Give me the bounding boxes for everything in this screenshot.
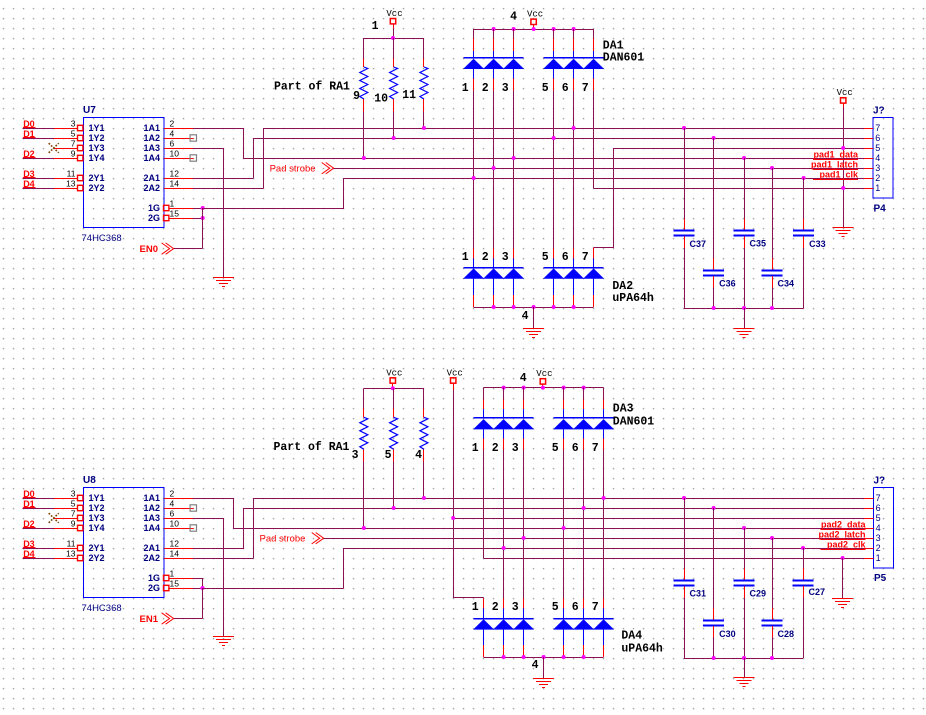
svg-text:5: 5 bbox=[542, 82, 549, 95]
svg-text:C34: C34 bbox=[778, 279, 795, 289]
wire U8 pin12 seg bbox=[193, 548, 244, 550]
Vcc symbol feed (bottom) bbox=[451, 378, 456, 383]
junction R4b to line bbox=[422, 496, 426, 500]
Vcc symbol above RA1 (bottom) bbox=[390, 378, 395, 383]
svg-text:Part of RA1: Part of RA1 bbox=[274, 81, 350, 94]
resistor RA1 pin 3 (bottom) bbox=[360, 417, 368, 449]
junction DA4 bus x523 bbox=[522, 655, 526, 659]
junction at U7 pin1 bbox=[201, 206, 205, 210]
junction column x573 bbox=[572, 126, 576, 130]
wire C37 upper bbox=[684, 128, 686, 219]
resistor RA1 pin 11 bbox=[420, 67, 428, 99]
P4 pin 3 bbox=[864, 163, 880, 173]
svg-text:5: 5 bbox=[542, 251, 549, 264]
wire P4 Vcc to ground rail bbox=[843, 108, 845, 228]
wire C30 lower bbox=[713, 626, 715, 637]
junction column x523 b bbox=[522, 536, 526, 540]
U8 pin 5 (1Y2) bbox=[54, 499, 105, 514]
U8 pin 3 (1Y1) bbox=[54, 489, 105, 504]
wire EN0 stub bbox=[173, 248, 202, 250]
junction DA4 bus x583 bbox=[582, 655, 586, 659]
Vcc symbol above P4 bbox=[841, 98, 846, 103]
wire C31 upper bbox=[684, 498, 686, 569]
svg-text:2G: 2G bbox=[148, 583, 160, 593]
svg-text:1Y4: 1Y4 bbox=[89, 523, 105, 533]
svg-text:1Y3: 1Y3 bbox=[89, 513, 105, 523]
svg-text:4: 4 bbox=[522, 310, 529, 323]
wire 2G net jog up bbox=[343, 548, 345, 588]
svg-text:12: 12 bbox=[170, 539, 180, 549]
svg-text:5: 5 bbox=[552, 601, 559, 614]
wire U7 pin6 down to ground bbox=[223, 148, 225, 278]
svg-text:6: 6 bbox=[875, 133, 880, 143]
svg-text:5: 5 bbox=[385, 449, 392, 462]
capacitor C27 bbox=[793, 580, 814, 582]
svg-text:1A4: 1A4 bbox=[143, 153, 160, 163]
svg-text:2: 2 bbox=[875, 173, 880, 183]
junction DA1 bus x533 bbox=[532, 27, 536, 31]
wire RA1 R9 upper bbox=[363, 38, 365, 58]
capacitor C37 bbox=[674, 230, 695, 232]
svg-text:2Y2: 2Y2 bbox=[89, 183, 105, 193]
svg-text:Vcc: Vcc bbox=[837, 88, 853, 98]
wire DA2 ground stem bbox=[533, 307, 535, 328]
svg-text:J?: J? bbox=[873, 106, 885, 117]
svg-text:74HC368: 74HC368 bbox=[82, 233, 122, 244]
svg-text:uPA64h: uPA64h bbox=[621, 642, 663, 655]
diode DA4 pin 3 bbox=[512, 598, 534, 657]
svg-text:7: 7 bbox=[71, 139, 76, 149]
svg-text:pad2_data: pad2_data bbox=[821, 519, 867, 529]
wire U7 pin12 jog up bbox=[253, 138, 255, 178]
wire C29 upper bbox=[744, 528, 746, 569]
svg-text:14: 14 bbox=[170, 549, 180, 559]
svg-text:C29: C29 bbox=[750, 588, 767, 598]
svg-text:1: 1 bbox=[876, 553, 881, 563]
P5 pin 3 bbox=[864, 533, 881, 543]
svg-text:10: 10 bbox=[374, 92, 388, 105]
wire C36 lower bbox=[713, 276, 715, 287]
wire column x523 DA3-DA4 bbox=[523, 449, 525, 598]
svg-text:2: 2 bbox=[482, 251, 489, 264]
wire U7 pin12 seg bbox=[193, 178, 253, 180]
wire Vcc stem RA1 top bbox=[393, 28, 395, 38]
diode DA1 pin 5 bbox=[542, 29, 564, 95]
svg-text:6: 6 bbox=[876, 503, 881, 513]
svg-text:9: 9 bbox=[71, 519, 76, 529]
svg-text:4: 4 bbox=[510, 11, 517, 24]
diode DA1 pin 1 bbox=[462, 29, 484, 95]
wire U7 pin1 to pin15 tie bbox=[202, 208, 204, 218]
P4 pin 2 bbox=[864, 173, 880, 183]
svg-text:4: 4 bbox=[415, 449, 422, 462]
ground at P5 bbox=[832, 598, 853, 600]
wire U8 pin6 seg bbox=[193, 518, 224, 520]
U7 pin 1 (1G) bbox=[148, 199, 193, 214]
svg-text:pad1_data: pad1_data bbox=[813, 149, 859, 159]
diode DA4 pin 1 bbox=[472, 598, 494, 657]
wire C28 upper bbox=[772, 538, 774, 608]
svg-text:1: 1 bbox=[462, 251, 469, 264]
ground at DA2 bbox=[523, 328, 544, 330]
wire column x493 DA1-DA2 bbox=[493, 91, 495, 249]
wire column x473 DA1-DA2 bbox=[473, 91, 475, 249]
junction DA3 bus x523 bbox=[522, 386, 526, 390]
DA4 cathode bar group A bbox=[474, 618, 534, 620]
wire C33 lower bbox=[803, 236, 805, 247]
wire D3 to U8 bbox=[22, 548, 54, 550]
svg-text:Vcc: Vcc bbox=[447, 368, 463, 378]
svg-text:2Y2: 2Y2 bbox=[89, 553, 105, 563]
svg-text:13: 13 bbox=[66, 549, 76, 559]
svg-text:2: 2 bbox=[876, 543, 881, 553]
diode DA3 pin 1 bbox=[472, 388, 494, 455]
wire cap bus bottom ground stem bbox=[744, 658, 746, 678]
U8 pin 12 (2A1) bbox=[143, 539, 193, 554]
U8 pin 15 (2G) bbox=[148, 579, 193, 594]
U7 pin 12 (2A1) bbox=[143, 169, 193, 184]
svg-text:10: 10 bbox=[170, 519, 180, 529]
U7 pin 10 (1A4) bbox=[143, 149, 193, 164]
P5 pin 1 bbox=[864, 553, 881, 563]
capacitor C36 bbox=[703, 270, 724, 272]
svg-text:11: 11 bbox=[402, 89, 416, 102]
svg-text:4: 4 bbox=[532, 659, 539, 672]
U7 pin 9 (1Y4) bbox=[54, 149, 105, 164]
svg-text:2: 2 bbox=[170, 119, 175, 129]
svg-text:U8: U8 bbox=[83, 475, 96, 486]
svg-text:Part of RA1: Part of RA1 bbox=[274, 441, 350, 454]
diode DA2 pin 7 bbox=[582, 248, 604, 307]
wire U8 pin6 down to ground bbox=[223, 518, 225, 637]
wire column x553 DA1-DA2 bbox=[553, 91, 555, 249]
P5 pin 4 bbox=[864, 523, 881, 533]
wire column x483 DA3 to line y558 bbox=[483, 449, 485, 558]
wire capacitor bus bottom bbox=[684, 658, 803, 660]
connector P5 body bbox=[874, 488, 894, 569]
svg-text:1A4: 1A4 bbox=[143, 523, 160, 533]
svg-text:5: 5 bbox=[876, 513, 881, 523]
svg-text:1: 1 bbox=[372, 20, 379, 33]
wire C31 lower bbox=[684, 587, 686, 598]
resistor RA1 pin 4 (bottom) bbox=[420, 417, 428, 449]
svg-text:1A3: 1A3 bbox=[143, 513, 160, 523]
DA3 cathode bar group A bbox=[474, 417, 534, 419]
junction cap bus bottom x772 bbox=[770, 656, 774, 660]
U8 pin 4 (1A2) bbox=[143, 499, 193, 514]
U8 pin 1 (1G) bbox=[148, 569, 193, 584]
resistor RA1 pin 9 bbox=[360, 67, 368, 99]
junction C31 tap bbox=[682, 496, 686, 500]
wire Vcc stem DA3 bbox=[542, 387, 544, 389]
wire capacitor bus top bbox=[684, 308, 804, 310]
junction R3b to line bbox=[362, 526, 366, 530]
wire DA4 pin1 feed jog bbox=[453, 597, 483, 599]
wire P5 ground stem bbox=[842, 558, 844, 598]
P4 pin 1 bbox=[864, 183, 880, 193]
U8 pin 14 (2A2) bbox=[143, 549, 193, 564]
U8 pin 10 no-connect marker bbox=[190, 525, 196, 531]
net pad2_latch line y538 bbox=[323, 538, 864, 540]
svg-text:C27: C27 bbox=[809, 587, 826, 597]
junction DA2 bus x553 bbox=[552, 305, 556, 309]
wire D2 to U8 bbox=[22, 528, 54, 530]
wire C35 upper bbox=[744, 158, 746, 219]
capacitor C28 bbox=[762, 620, 783, 622]
svg-text:C36: C36 bbox=[719, 279, 736, 289]
wire DA3 top bus bbox=[484, 387, 604, 389]
svg-text:4: 4 bbox=[875, 153, 880, 163]
junction C37 tap bbox=[682, 126, 686, 130]
wire RA1 R3b lower bbox=[363, 449, 365, 461]
svg-text:7: 7 bbox=[875, 123, 880, 133]
svg-text:9: 9 bbox=[353, 90, 360, 103]
Vcc symbol above DA3 bbox=[540, 379, 545, 384]
svg-text:C31: C31 bbox=[690, 588, 707, 598]
wire D2 to U7 bbox=[22, 158, 54, 160]
junction DA2 bus x513 bbox=[512, 305, 516, 309]
svg-text:1: 1 bbox=[462, 82, 469, 95]
junction cap bus x713 bbox=[712, 306, 716, 310]
svg-text:5: 5 bbox=[552, 442, 559, 455]
diode DA4 pin 6 bbox=[572, 598, 594, 657]
diode DA1 pin 3 bbox=[502, 29, 524, 95]
U8 pin 2 (1A1) bbox=[143, 489, 193, 504]
junction DA1 bus x573 bbox=[572, 27, 576, 31]
U8 pin 6 (1A3) bbox=[143, 509, 193, 524]
svg-text:C28: C28 bbox=[778, 629, 795, 639]
junction column x503 b bbox=[502, 546, 506, 550]
svg-text:pad2_latch: pad2_latch bbox=[818, 529, 865, 539]
net line y138 bbox=[253, 138, 864, 140]
P4 pin 6 bbox=[864, 133, 880, 143]
U8 pin 7 (1Y3) bbox=[54, 509, 105, 524]
junction C27 tap bbox=[801, 546, 805, 550]
wire C27 upper bbox=[803, 548, 805, 568]
wire D3 to U7 bbox=[22, 178, 54, 180]
svg-text:3: 3 bbox=[71, 119, 76, 129]
wire DA2 pin7 feed vertical bbox=[613, 148, 615, 248]
diode DA4 pin 5 bbox=[552, 598, 574, 657]
net pad2_data line y528 bbox=[233, 528, 864, 530]
junction column x583 b bbox=[582, 506, 586, 510]
svg-text:1: 1 bbox=[170, 569, 175, 579]
svg-text:74HC368: 74HC368 bbox=[82, 603, 122, 614]
U8 pin 11 (2Y1) bbox=[54, 539, 105, 554]
svg-text:Vcc: Vcc bbox=[536, 369, 552, 379]
svg-text:5: 5 bbox=[875, 143, 880, 153]
P4 pin 5 bbox=[864, 143, 880, 153]
junction DA4 bus x563 bbox=[562, 655, 566, 659]
junction DA1 bus x493 bbox=[492, 27, 496, 31]
net pad1_clk line y178 bbox=[344, 178, 864, 180]
wire DA1 top bus bbox=[474, 29, 594, 31]
wire D1 to U7 bbox=[22, 138, 54, 140]
svg-text:15: 15 bbox=[170, 209, 180, 219]
svg-text:1A1: 1A1 bbox=[143, 123, 160, 133]
net pad1_data line y158 bbox=[243, 158, 864, 160]
wire D0 to U7 bbox=[22, 128, 54, 130]
svg-text:7: 7 bbox=[876, 493, 881, 503]
ground at U8 pin6 bbox=[213, 636, 234, 638]
svg-text:5: 5 bbox=[71, 129, 76, 139]
wire RA1 R5b upper bbox=[393, 388, 395, 408]
diode DA3 pin 7 bbox=[592, 388, 614, 455]
wire D0 to U8 bbox=[22, 498, 54, 500]
net line y558 bbox=[484, 558, 864, 560]
junction C28 tap bbox=[770, 536, 774, 540]
svg-text:Pad strobe: Pad strobe bbox=[270, 164, 316, 175]
junction cap bus x772 bbox=[770, 306, 774, 310]
net pad2_clk line y548 bbox=[343, 548, 864, 550]
diode DA1 pin 2 bbox=[482, 29, 504, 95]
wire RA1 R10 upper bbox=[393, 38, 395, 58]
svg-text:6: 6 bbox=[562, 82, 569, 95]
svg-text:1Y2: 1Y2 bbox=[89, 133, 105, 143]
wire U8 pin14 jog up bbox=[253, 498, 255, 558]
junction column x563 b bbox=[562, 526, 566, 530]
DA3 cathode bar group B bbox=[554, 417, 614, 419]
capacitor C29 bbox=[734, 580, 755, 582]
svg-text:P5: P5 bbox=[874, 573, 887, 584]
wire DA4 ground stem bbox=[543, 657, 545, 678]
svg-text:2G: 2G bbox=[148, 213, 160, 223]
wire U7 pin15 stub ext bbox=[193, 218, 203, 220]
U7 pin 3 (1Y1) bbox=[54, 119, 105, 134]
DA4 cathode bar group B bbox=[554, 618, 614, 620]
wire RA1 R4b lower bbox=[423, 449, 425, 461]
junction DA3 bus x583 bbox=[582, 386, 586, 390]
wire column x503 DA3-DA4 bbox=[503, 449, 505, 598]
capacitor C33 bbox=[793, 230, 814, 232]
svg-text:3: 3 bbox=[512, 601, 519, 614]
junction DA1 bus x553 bbox=[552, 27, 556, 31]
U8 pin 10 (1A4) bbox=[143, 519, 193, 534]
wire column x603 DA3-DA4 bbox=[603, 449, 605, 598]
junction RA1 bottom bus Vcc bbox=[391, 386, 395, 390]
wire U8 pin2 seg bbox=[193, 498, 233, 500]
svg-text:Vcc: Vcc bbox=[527, 10, 543, 20]
svg-text:7: 7 bbox=[71, 509, 76, 519]
svg-text:Vcc: Vcc bbox=[386, 368, 402, 378]
junction P4 rail y188 bbox=[841, 186, 845, 190]
svg-text:3: 3 bbox=[71, 489, 76, 499]
P5 pin 7 bbox=[864, 493, 881, 503]
svg-text:2: 2 bbox=[170, 489, 175, 499]
junction cap bus bottom x713 bbox=[712, 656, 716, 660]
diode DA1 pin 6 bbox=[562, 29, 584, 95]
wire 1G net horizontal bbox=[203, 208, 344, 210]
svg-text:4: 4 bbox=[876, 523, 881, 533]
ground at DA4 bbox=[533, 678, 554, 680]
junction column x603 b bbox=[602, 496, 606, 500]
wire U7 pin14 jog up bbox=[263, 128, 265, 188]
svg-text:C35: C35 bbox=[750, 239, 767, 249]
wire DA4 bottom bus bbox=[484, 657, 604, 659]
svg-text:2A2: 2A2 bbox=[143, 553, 160, 563]
diode DA1 pin 7 bbox=[582, 29, 604, 95]
port EN0 bbox=[162, 243, 170, 254]
svg-text:15: 15 bbox=[170, 579, 180, 589]
svg-text:C33: C33 bbox=[809, 239, 826, 249]
resistor RA1 pin 5 (bottom) bbox=[390, 417, 398, 449]
wire U7 pin2 jog down bbox=[243, 128, 245, 158]
svg-text:1A1: 1A1 bbox=[143, 493, 160, 503]
junction Vcc feed y518 bbox=[451, 516, 455, 520]
wire U7 pin2 seg bbox=[193, 128, 243, 130]
wire Vcc feed vertical bbox=[453, 390, 455, 598]
wire C28 lower bbox=[772, 626, 774, 637]
diode DA2 pin 5 bbox=[542, 248, 564, 307]
IC U7 body 74HC368 bbox=[84, 118, 165, 228]
svg-text:9: 9 bbox=[71, 149, 76, 159]
DA1 cathode bar group A bbox=[464, 57, 524, 59]
diode DA4 pin 2 bbox=[492, 598, 514, 657]
DA2 cathode bar group A bbox=[464, 267, 524, 269]
svg-text:1Y3: 1Y3 bbox=[89, 143, 105, 153]
capacitor C35 bbox=[734, 230, 755, 232]
svg-text:10: 10 bbox=[170, 149, 180, 159]
wire column x563 DA3-DA4 bbox=[563, 449, 565, 598]
svg-text:6: 6 bbox=[170, 139, 175, 149]
wire RA1 R11 upper bbox=[423, 38, 425, 58]
DA2 cathode bar group B bbox=[544, 267, 604, 269]
svg-text:14: 14 bbox=[170, 179, 180, 189]
svg-text:1G: 1G bbox=[148, 573, 160, 583]
junction DA3 bus x542 bbox=[541, 386, 545, 390]
no-ERC marker X on U8 pin 7 bbox=[49, 513, 59, 523]
wire C33 upper bbox=[803, 178, 805, 219]
svg-text:1Y4: 1Y4 bbox=[89, 153, 105, 163]
svg-text:1Y1: 1Y1 bbox=[89, 493, 105, 503]
junction R9 to line bbox=[362, 156, 366, 160]
net pad1_latch line y168 bbox=[333, 168, 864, 170]
ground at P4 bbox=[833, 227, 854, 229]
svg-text:P4: P4 bbox=[874, 204, 887, 215]
wire U7 pin6 seg bbox=[193, 148, 223, 150]
wire Vcc stem DA1 bbox=[533, 28, 535, 30]
U7 pin 10 no-connect marker bbox=[190, 155, 196, 161]
diode DA3 pin 5 bbox=[552, 388, 574, 455]
wire column x573 DA1-DA2 bbox=[573, 91, 575, 249]
U7 pin 5 (1Y2) bbox=[54, 129, 105, 144]
svg-text:1: 1 bbox=[875, 183, 880, 193]
wire C27 lower bbox=[803, 586, 805, 597]
svg-text:7: 7 bbox=[582, 251, 589, 264]
DA1 cathode bar group B bbox=[544, 57, 604, 59]
junction DA2 bus x533 bbox=[532, 305, 536, 309]
wire C29 lower bbox=[744, 587, 746, 598]
junction DA2 bus x573 bbox=[572, 305, 576, 309]
wire DA4 pin1 feed drop bbox=[483, 597, 485, 600]
svg-text:1A3: 1A3 bbox=[143, 143, 160, 153]
P5 pin 2 bbox=[864, 543, 881, 553]
svg-text:2: 2 bbox=[492, 442, 499, 455]
diode DA3 pin 3 bbox=[512, 388, 534, 455]
P4 pin 4 bbox=[864, 153, 880, 163]
junction DA4 bus x503 bbox=[502, 655, 506, 659]
svg-text:1G: 1G bbox=[148, 203, 160, 213]
svg-text:pad1_latch: pad1_latch bbox=[811, 159, 858, 169]
svg-text:DAN601: DAN601 bbox=[613, 416, 655, 429]
wire RA1 top bus bbox=[364, 38, 424, 40]
svg-text:uPA64h: uPA64h bbox=[612, 292, 654, 305]
diode DA3 pin 2 bbox=[492, 388, 514, 455]
svg-text:13: 13 bbox=[66, 179, 76, 189]
capacitor C34 bbox=[762, 270, 783, 272]
svg-text:DAN601: DAN601 bbox=[603, 52, 645, 65]
ground at U7 pin6 bbox=[213, 277, 234, 279]
